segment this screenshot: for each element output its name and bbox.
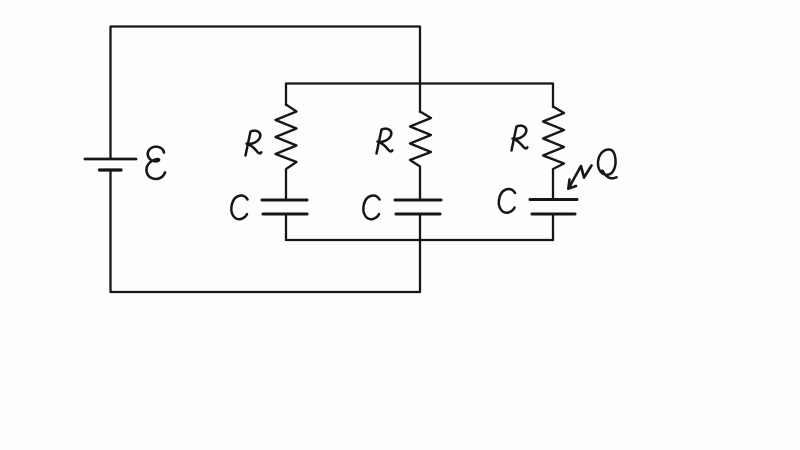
wire R1-C1 <box>285 172 287 199</box>
capacitor C3 <box>530 200 577 215</box>
label R2 <box>377 129 393 154</box>
arrow Q to C3 <box>568 166 591 189</box>
wire C3-bottom <box>552 214 554 240</box>
label R1 <box>246 131 262 156</box>
wire C1-bottom <box>285 214 287 240</box>
wire outer top <box>111 27 421 159</box>
wire inner top rail <box>286 84 553 108</box>
label Q <box>598 149 617 178</box>
label E (emf script epsilon) <box>146 147 165 179</box>
label R3 <box>512 126 528 151</box>
label C2 <box>363 196 379 220</box>
wire inner bottom rail <box>286 239 553 241</box>
label C3 <box>499 189 515 213</box>
capacitor C2 <box>395 200 441 214</box>
resistor R3 <box>543 107 564 172</box>
wire C2-bottom <box>419 214 421 240</box>
resistor R2 <box>410 112 431 172</box>
label C1 <box>231 196 247 220</box>
battery E <box>85 159 136 170</box>
capacitor C1 <box>262 200 307 214</box>
wire R2-C2 <box>419 171 421 199</box>
node J1 (branch2/top rail crossing) <box>419 84 421 113</box>
wire outer bottom <box>111 170 421 292</box>
wire R3-C3 <box>552 171 554 198</box>
resistor R1 <box>276 105 297 173</box>
